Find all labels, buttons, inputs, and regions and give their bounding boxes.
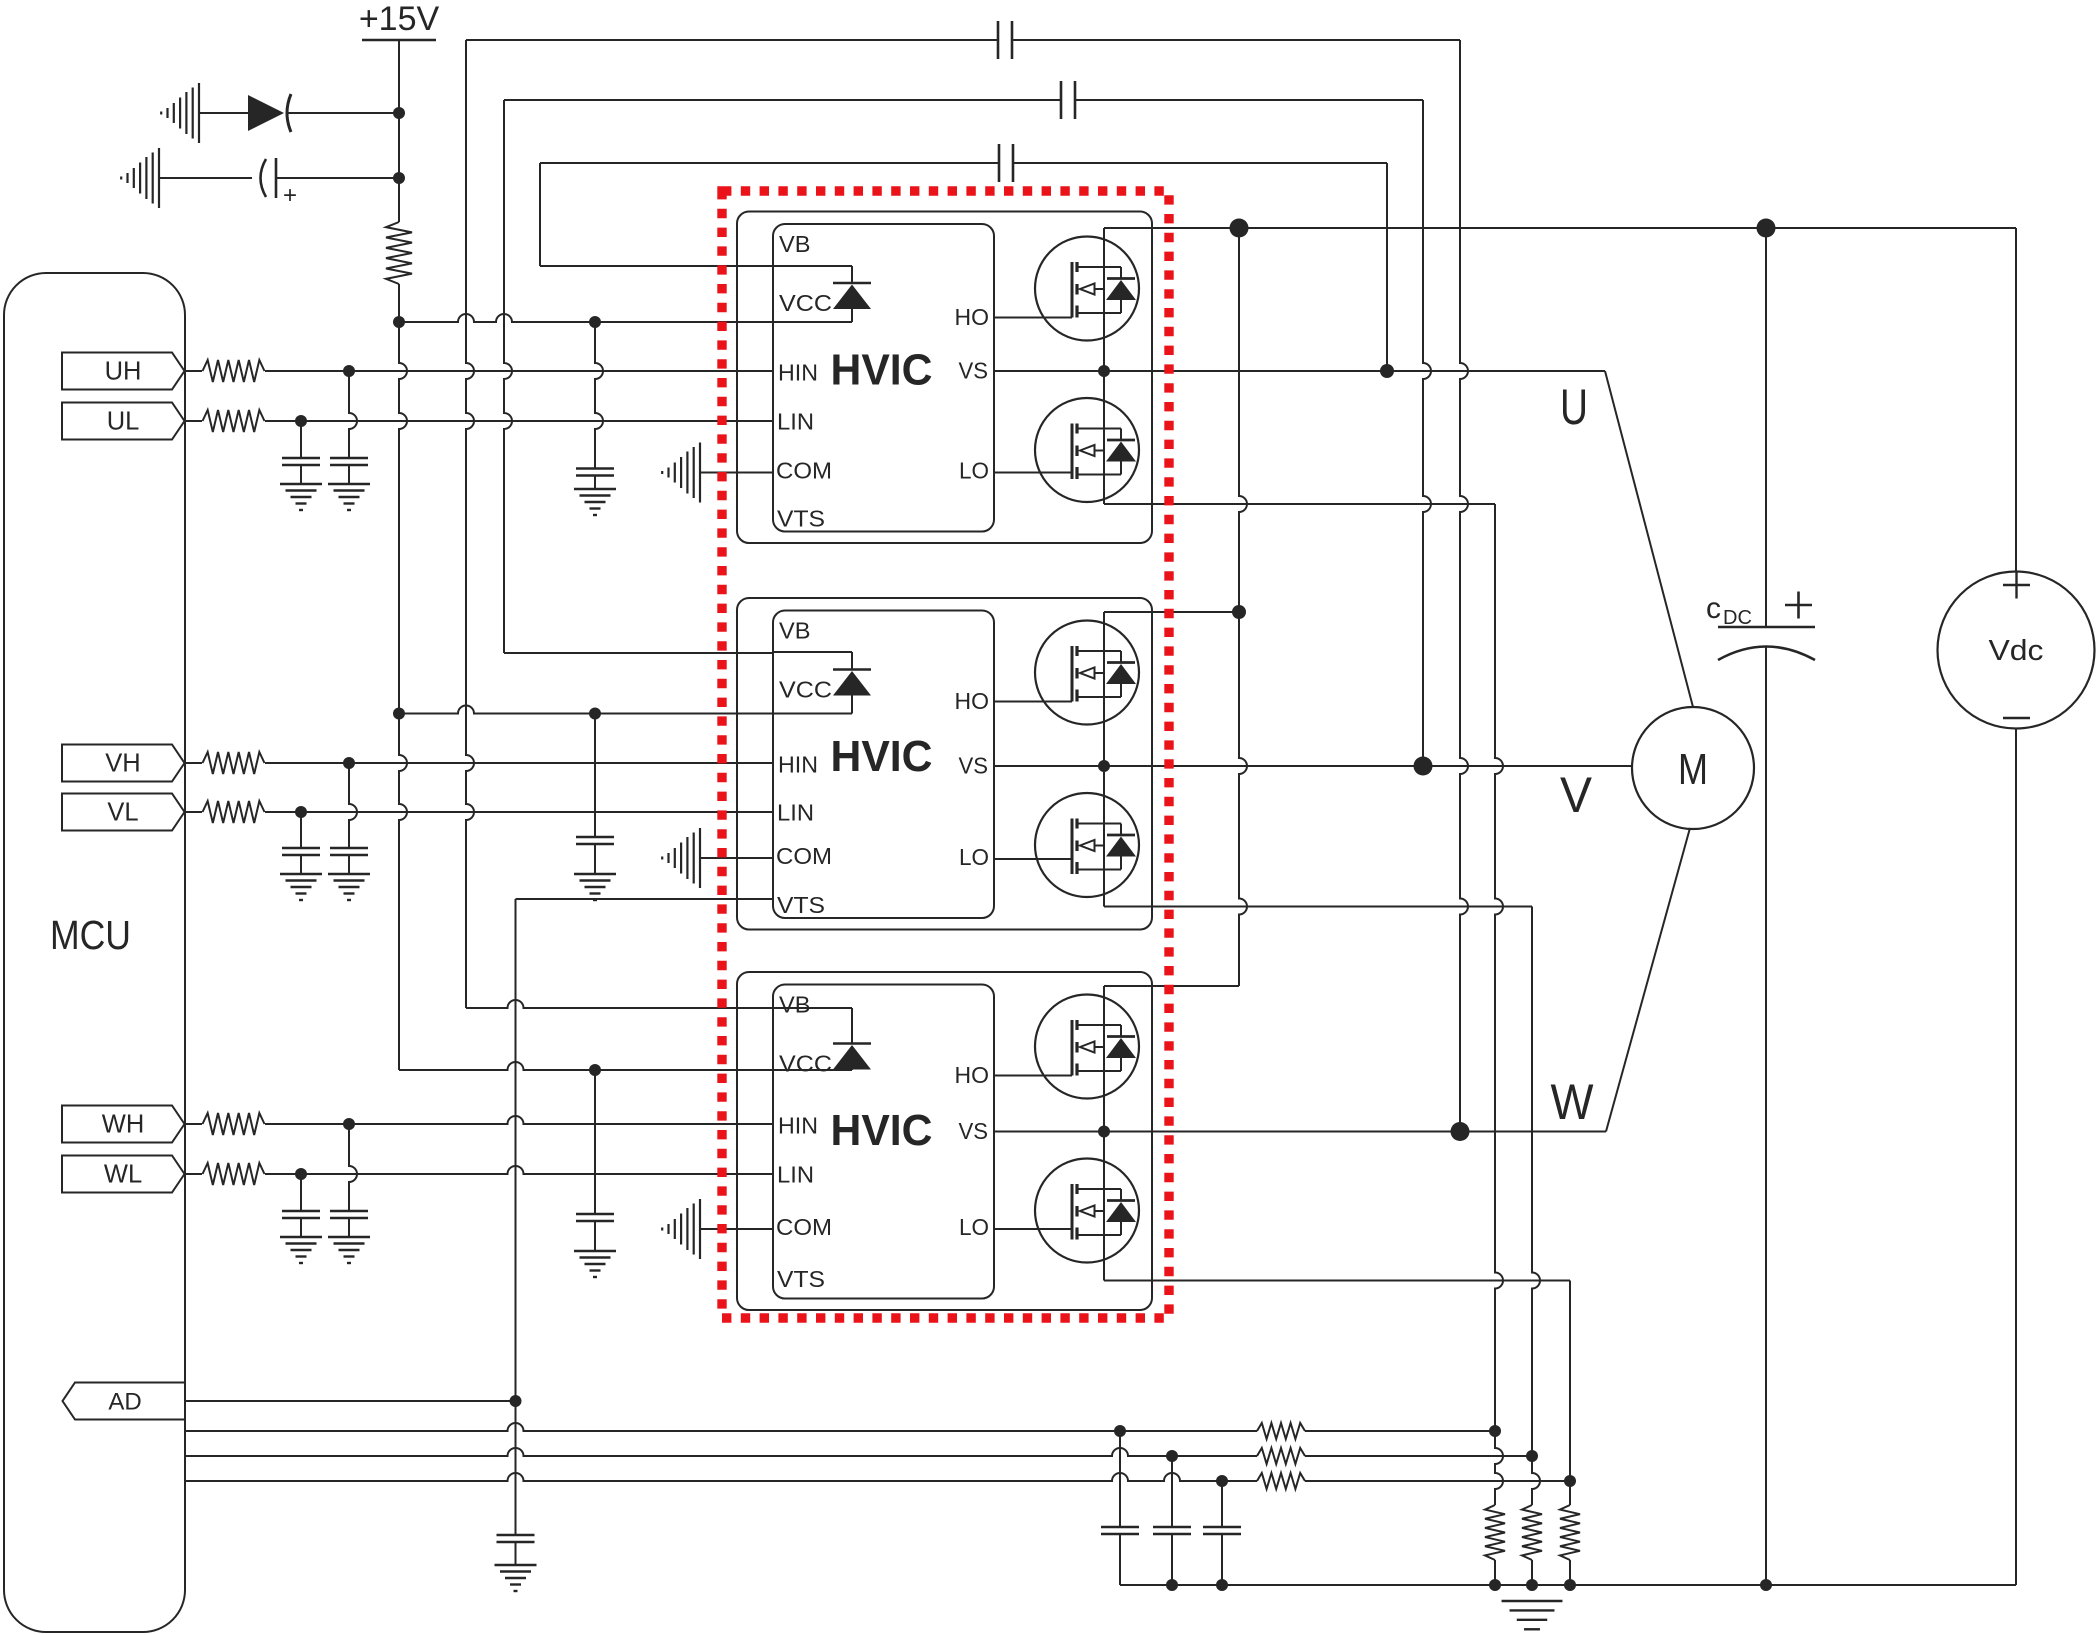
svg-text:Vdc: Vdc bbox=[1989, 635, 2044, 667]
wire bootstrap W (VB3) top run y=40 bbox=[466, 39, 998, 41]
wire WL line to HVIC bbox=[265, 1166, 773, 1174]
svg-text:HO: HO bbox=[955, 1062, 990, 1088]
wire sense row 3 y=1481 bbox=[185, 1473, 1222, 1481]
HVIC W (module 3) outer box bbox=[737, 972, 1152, 1310]
wire VCC2 row y=713.5 bbox=[399, 706, 773, 714]
svg-text:LIN: LIN bbox=[777, 800, 814, 826]
chassis ground COM (y=1229) bbox=[699, 1199, 701, 1259]
svg-text:UL: UL bbox=[107, 408, 140, 436]
bootstrap capacitor CbU bbox=[998, 144, 1001, 182]
voltage source Vdc bbox=[2015, 228, 2017, 572]
MCU pin WL bbox=[62, 1156, 185, 1193]
svg-text:HIN: HIN bbox=[778, 1113, 818, 1139]
svg-text:M: M bbox=[1678, 745, 1708, 794]
wire LO (W (module 3)) bbox=[994, 1228, 1072, 1230]
svg-text:VCC: VCC bbox=[779, 1051, 832, 1077]
decoupling capacitor on VCC row y=1070 (x=595) bbox=[594, 1070, 596, 1214]
resistor RWL (series gate resistor) bbox=[185, 1173, 202, 1175]
HVIC U (module 1) inner box bbox=[773, 224, 994, 532]
wire diode row bbox=[199, 112, 248, 114]
HVIC W (module 3) inner box bbox=[773, 985, 994, 1299]
wire DC+ drop x=1239 bbox=[1239, 228, 1247, 986]
svg-text:W: W bbox=[1551, 1074, 1595, 1130]
resistor sense R2 bbox=[1172, 1455, 1257, 1457]
wire VS (U (module 1)) bbox=[994, 370, 1104, 372]
wire VB3 row y=1008 bbox=[466, 1000, 773, 1008]
wire V phase (VS2) y=766 bbox=[994, 765, 1632, 767]
ground bbox=[280, 1236, 322, 1238]
svg-text:VS: VS bbox=[959, 753, 989, 779]
svg-text:VB: VB bbox=[779, 618, 811, 644]
svg-text:LO: LO bbox=[959, 844, 989, 870]
svg-text:c: c bbox=[1706, 592, 1721, 625]
capacitor on H input (x=349, row y=371) bbox=[349, 371, 357, 458]
wire VS (W (module 3)) bbox=[994, 1131, 1104, 1133]
chassis ground (diode row) bbox=[198, 83, 200, 143]
svg-text:HIN: HIN bbox=[778, 360, 818, 386]
svg-text:COM: COM bbox=[776, 1214, 832, 1240]
svg-text:HIN: HIN bbox=[778, 752, 818, 778]
resistor RUL (series gate resistor) bbox=[185, 420, 202, 422]
resistor RVH (series gate resistor) bbox=[185, 762, 202, 764]
wire bootstrap V vertical x=504 bbox=[504, 100, 512, 653]
capacitor on AD line bbox=[497, 1534, 535, 1537]
wire V low-side source y=906.5 bbox=[1104, 906, 1532, 908]
wire LO (U (module 1)) bbox=[994, 472, 1072, 474]
ground bbox=[574, 873, 616, 875]
ground bbox=[495, 1564, 537, 1566]
svg-text:VS: VS bbox=[959, 358, 989, 384]
svg-text:HO: HO bbox=[955, 304, 990, 330]
wire UH line to HVIC bbox=[265, 370, 773, 372]
MCU pin VH bbox=[62, 745, 185, 782]
wire U phase (VS1) y=371 bbox=[994, 370, 1605, 372]
wire U diagonal to motor bbox=[1605, 371, 1693, 707]
HVIC V (module 2) outer box bbox=[737, 598, 1152, 930]
svg-text:+: + bbox=[283, 182, 297, 209]
svg-text:VH: VH bbox=[105, 750, 140, 778]
wire sense row 2 y=1456 bbox=[185, 1448, 1172, 1456]
wire VL line to HVIC bbox=[265, 811, 773, 813]
svg-text:V: V bbox=[1560, 767, 1593, 823]
ground bbox=[328, 1236, 370, 1238]
wire module2 drain rail bbox=[1104, 611, 1239, 613]
svg-text:LIN: LIN bbox=[777, 409, 814, 435]
wire VB1 row y=266 bbox=[540, 265, 773, 267]
wire AD row y=1401 bbox=[185, 1400, 516, 1402]
wire cap row bbox=[159, 177, 252, 179]
svg-text:VS: VS bbox=[959, 1118, 989, 1144]
label + (C_DC) bbox=[1785, 604, 1812, 607]
wire U low-side source y=504 bbox=[1104, 503, 1495, 505]
diode D1 (reverse protection) bbox=[248, 95, 284, 131]
svg-text:LIN: LIN bbox=[777, 1162, 814, 1188]
bootstrap capacitor CbV bbox=[1060, 81, 1063, 119]
svg-text:WL: WL bbox=[104, 1161, 142, 1189]
svg-text:HO: HO bbox=[955, 688, 990, 714]
capacitor C_DC (DC link) bbox=[1765, 228, 1767, 627]
svg-text:DC: DC bbox=[1723, 607, 1752, 629]
wire drain-source vertical (W (module 3)) bbox=[1103, 986, 1105, 1281]
HVIC U (module 1) outer box bbox=[737, 212, 1152, 544]
motor M bbox=[1632, 707, 1754, 829]
svg-text:U: U bbox=[1560, 379, 1588, 435]
svg-text:VTS: VTS bbox=[777, 1266, 825, 1292]
ground bbox=[574, 1250, 616, 1252]
capacitor on L input (x=301, row y=1174) bbox=[300, 1174, 302, 1211]
lower MOSFET (W (module 3) low side) bbox=[1035, 1159, 1139, 1263]
capacitor on L input (x=301, row y=421) bbox=[300, 421, 302, 458]
svg-text:COM: COM bbox=[776, 843, 832, 869]
svg-text:HVIC: HVIC bbox=[831, 1106, 933, 1155]
svg-text:LO: LO bbox=[959, 1214, 989, 1240]
upper MOSFET (W (module 3) high side) bbox=[1035, 995, 1139, 1099]
wire VS (V (module 2)) bbox=[994, 765, 1104, 767]
svg-text:COM: COM bbox=[776, 458, 832, 484]
ground (bottom rail) bbox=[1502, 1600, 1563, 1602]
wire UL line to HVIC bbox=[265, 420, 773, 422]
junction dots bbox=[393, 107, 405, 119]
wire DC+ bus y=228 bbox=[1104, 227, 2016, 229]
svg-text:VCC: VCC bbox=[779, 290, 832, 316]
MCU pin AD bbox=[63, 1383, 186, 1420]
ground bbox=[574, 488, 616, 490]
resistor on +15V rail bbox=[386, 222, 412, 284]
MCU block bbox=[4, 273, 185, 1632]
svg-text:+15V: +15V bbox=[359, 0, 440, 38]
chassis ground COM (y=858) bbox=[699, 828, 701, 888]
svg-text:UH: UH bbox=[105, 358, 142, 386]
capacitor on L input (x=301, row y=812) bbox=[300, 812, 302, 848]
wire bootstrap V (VB2) top run y=100 bbox=[504, 99, 1061, 101]
chassis ground (cap row) bbox=[158, 148, 160, 208]
wire bootstrap U (VB1) top run y=163 bbox=[540, 162, 999, 164]
svg-text:VB: VB bbox=[779, 992, 811, 1018]
wire W diagonal to motor bbox=[1606, 828, 1690, 1132]
svg-text:VTS: VTS bbox=[777, 892, 825, 918]
ground bbox=[280, 483, 322, 485]
decoupling capacitor on VCC row y=713.5 (x=595) bbox=[594, 714, 596, 838]
wire VH line to HVIC bbox=[265, 762, 773, 764]
MCU pin WH bbox=[62, 1106, 185, 1143]
filter capacitor (x=1222) bbox=[1221, 1481, 1223, 1527]
bootstrap capacitor CbW bbox=[997, 21, 1000, 59]
svg-text:VB: VB bbox=[779, 231, 811, 257]
label + (Vdc) bbox=[2003, 584, 2030, 586]
filter capacitor (x=1172) bbox=[1171, 1456, 1173, 1527]
capacitor C1 (electrolytic, +15V bulk) bbox=[261, 159, 267, 197]
wire VTS2 to AD (vertical x=515.5) bbox=[516, 898, 774, 900]
lower MOSFET (V (module 2) low side) bbox=[1035, 793, 1139, 897]
resistor RUH (series gate resistor) bbox=[185, 370, 202, 372]
svg-text:HVIC: HVIC bbox=[831, 346, 933, 395]
capacitor on H input (x=349, row y=1124) bbox=[349, 1124, 357, 1211]
bootstrap diode (inside V (module 2)) bbox=[773, 651, 852, 653]
resistor RWH (series gate resistor) bbox=[185, 1123, 202, 1125]
MCU pin VL bbox=[62, 794, 185, 831]
svg-text:MCU: MCU bbox=[50, 912, 131, 958]
wire LO (V (module 2)) bbox=[994, 858, 1072, 860]
ground bbox=[328, 483, 370, 485]
HVIC V (module 2) inner box bbox=[773, 611, 994, 919]
wire module3 drain rail bbox=[1104, 985, 1239, 987]
wire bootstrap V drop x=1423 to V VS bbox=[1423, 100, 1431, 766]
svg-text:VL: VL bbox=[107, 799, 138, 827]
upper MOSFET (U (module 1) high side) bbox=[1035, 237, 1139, 341]
bootstrap diode (inside U (module 1)) bbox=[773, 265, 852, 267]
shunt resistor (x=1532) bbox=[1532, 1456, 1540, 1505]
wire drain-source vertical (V (module 2)) bbox=[1103, 612, 1105, 907]
svg-text:LO: LO bbox=[959, 458, 989, 484]
wire drain-source vertical (U (module 1)) bbox=[1103, 228, 1105, 504]
wire sense row 1 y=1431 bbox=[185, 1423, 1120, 1431]
wire W shunt drop x=1570 bbox=[1569, 1281, 1571, 1482]
ground bbox=[328, 873, 370, 875]
svg-text:VTS: VTS bbox=[777, 506, 825, 532]
MCU pin UH bbox=[62, 353, 185, 390]
chassis ground COM (y=472.5) bbox=[699, 443, 701, 503]
wire bootstrap W vertical x=466 bbox=[466, 40, 474, 1008]
label - (Vdc) bbox=[2003, 717, 2030, 719]
wire bootstrap U drop x=1387 to U VS bbox=[1386, 163, 1388, 371]
shunt resistor (x=1495) bbox=[1495, 1431, 1503, 1505]
wire HO (U (module 1)) bbox=[994, 317, 1072, 319]
wire W low-side source y=1280.5 bbox=[1104, 1280, 1570, 1282]
svg-text:VCC: VCC bbox=[779, 677, 832, 703]
ground bbox=[280, 873, 322, 875]
decoupling capacitor on VCC row y=322 (x=595) bbox=[595, 322, 603, 469]
red dotted boundary (HVIC section) bbox=[722, 191, 1169, 1318]
capacitor on H input (x=349, row y=763) bbox=[349, 763, 357, 848]
resistor sense R1 bbox=[1120, 1430, 1257, 1432]
wire WH line to HVIC bbox=[265, 1116, 773, 1124]
svg-text:WH: WH bbox=[102, 1111, 144, 1139]
wire bootstrap W drop x=1460 to W VS bbox=[1460, 40, 1468, 1132]
wire bottom ground rail y=1585 bbox=[1120, 1584, 2016, 1586]
wire HO (V (module 2)) bbox=[994, 701, 1072, 703]
wire VCC1 row y=322 bbox=[399, 314, 773, 322]
lower MOSFET (U (module 1) low side) bbox=[1035, 398, 1139, 502]
resistor sense R3 bbox=[1222, 1480, 1257, 1482]
upper MOSFET (V (module 2) high side) bbox=[1035, 621, 1139, 725]
MCU pin UL bbox=[62, 403, 185, 440]
wire VB2 row y=653 bbox=[504, 652, 773, 654]
svg-text:AD: AD bbox=[108, 1389, 141, 1416]
resistor RVL (series gate resistor) bbox=[185, 811, 202, 813]
bootstrap diode (inside W (module 3)) bbox=[773, 1007, 852, 1009]
wire VCC3 row y=1070 bbox=[399, 1062, 773, 1070]
filter capacitor (x=1120) bbox=[1119, 1431, 1121, 1527]
shunt resistor (x=1570) bbox=[1569, 1481, 1571, 1505]
wire V shunt drop x=1532 bbox=[1532, 907, 1540, 1457]
+15V rail (x=399) bbox=[398, 40, 400, 222]
svg-text:HVIC: HVIC bbox=[831, 732, 933, 781]
wire HO (W (module 3)) bbox=[994, 1075, 1072, 1077]
wire bootstrap U vertical x=540 bbox=[539, 163, 541, 266]
wire U shunt drop x=1495 bbox=[1495, 504, 1503, 1431]
wire W phase (VS3) y=1131.5 bbox=[994, 1131, 1606, 1133]
